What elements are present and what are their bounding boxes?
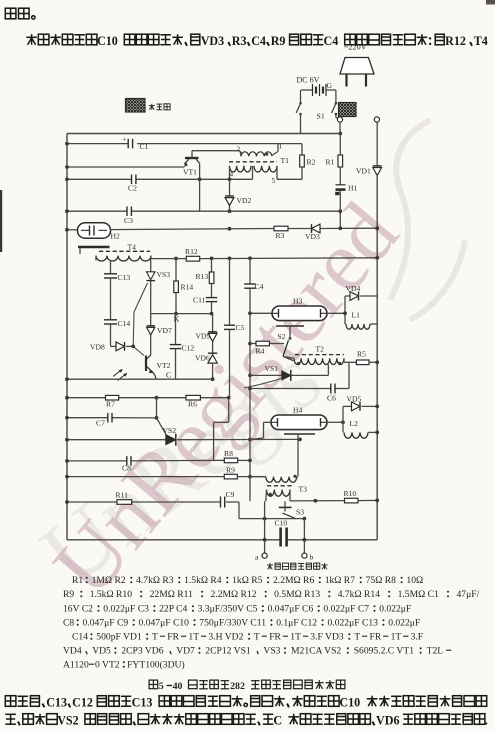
H4 trigger plate — [284, 433, 315, 435]
wire C5/R6 to R8 jog — [228, 398, 230, 423]
capacitor C14 — [104, 319, 117, 321]
wire bottom bus — [67, 539, 281, 541]
resistor R7 — [106, 395, 119, 400]
thyristor VS3 — [146, 259, 170, 314]
wire x250 bus low — [249, 375, 251, 476]
wire C3 VD2 line — [67, 210, 127, 212]
svg-text:75Ω R8: 75Ω R8 — [366, 575, 397, 586]
transformer T3 — [250, 475, 307, 502]
VS1 gate — [244, 379, 281, 388]
svg-text:0.1μF C12: 0.1μF C12 — [276, 618, 317, 629]
svg-text:R1: R1 — [72, 575, 83, 586]
capacitor C1 — [127, 139, 129, 149]
thyristor VS2 — [157, 418, 168, 438]
wire VT1 collector drop — [199, 180, 201, 211]
svg-text:0.022μF C3: 0.022μF C3 — [103, 604, 149, 615]
capacitor C7 — [107, 413, 109, 423]
resistor R10 — [345, 498, 359, 503]
svg-text:1kΩ R7: 1kΩ R7 — [325, 575, 356, 586]
neon H1 — [336, 184, 346, 186]
svg-text:C8: C8 — [63, 618, 74, 629]
wire C5 branch — [229, 258, 231, 325]
svg-text:FYT100(3DU): FYT100(3DU) — [127, 660, 185, 671]
socket terminal 2 — [374, 117, 379, 122]
svg-text:750μF/330V C11: 750μF/330V C11 — [199, 618, 266, 629]
resistor R2 — [301, 144, 303, 155]
svg-text:1.5MΩ C1: 1.5MΩ C1 — [398, 589, 439, 600]
svg-text:R3: R3 — [232, 34, 247, 48]
svg-text:VS2: VS2 — [57, 714, 79, 728]
edge mark top right — [486, 0, 495, 5]
svg-text:1kΩ R5: 1kΩ R5 — [232, 575, 263, 586]
capacitor C3 — [126, 206, 128, 216]
resistor R9 — [224, 474, 237, 479]
top paragraph — [5, 8, 16, 19]
svg-text:3.3μF/350V C5: 3.3μF/350V C5 — [198, 604, 258, 615]
wire left bus — [66, 134, 68, 540]
svg-text:M21CA VS2: M21CA VS2 — [291, 646, 341, 657]
resistor R5 — [344, 361, 356, 363]
thyristor VS1 — [250, 374, 282, 376]
wire C6 line — [250, 388, 331, 390]
svg-text:282: 282 — [230, 681, 245, 692]
capacitor C10 — [279, 528, 282, 547]
svg-text:4.7kΩ R3: 4.7kΩ R3 — [136, 575, 174, 586]
caption — [149, 680, 158, 689]
wire C8 line — [67, 460, 127, 462]
bottom paragraph — [5, 696, 16, 707]
capacitor C6 — [330, 384, 332, 394]
svg-text:VD6: VD6 — [376, 714, 400, 728]
wire right bus — [376, 176, 378, 540]
svg-text:T: T — [254, 632, 260, 643]
svg-text:3.F: 3.F — [411, 632, 424, 643]
svg-text:0 VT2: 0 VT2 — [95, 660, 120, 671]
svg-text:22MΩ R11: 22MΩ R11 — [150, 589, 193, 600]
insulation pad (board label) — [126, 99, 146, 113]
svg-text:2CP3 VD6: 2CP3 VD6 — [121, 646, 163, 657]
capacitor C9 — [220, 497, 222, 508]
svg-text:0.047μF C9: 0.047μF C9 — [83, 618, 129, 629]
resistor R12 — [186, 256, 199, 261]
svg-text:16V C2: 16V C2 — [63, 604, 93, 615]
svg-text:VD7: VD7 — [176, 646, 195, 657]
svg-text:C13: C13 — [46, 696, 67, 710]
resistor R6 — [186, 395, 200, 400]
svg-text:C14: C14 — [72, 632, 88, 643]
svg-text:C4: C4 — [324, 34, 339, 48]
wire T3-R10 line — [290, 500, 345, 502]
wire R12 line — [151, 258, 186, 260]
svg-text:T2L: T2L — [427, 646, 444, 657]
diode VD4 loop — [344, 296, 346, 324]
wire terminal b — [303, 519, 305, 553]
svg-text:C10: C10 — [339, 696, 360, 710]
resistor R1 — [339, 134, 341, 156]
wire top bus — [67, 133, 340, 135]
transistor VT1 — [183, 151, 241, 181]
svg-text:FR: FR — [269, 632, 281, 643]
svg-text:.: . — [485, 714, 488, 728]
wire R7 R6 line — [67, 397, 106, 399]
svg-text:40: 40 — [173, 681, 183, 692]
svg-text:0.022μF: 0.022μF — [379, 604, 411, 615]
wire C7 line — [67, 417, 108, 419]
svg-text:1T: 1T — [188, 632, 199, 643]
wire C node line — [67, 378, 213, 380]
switch S3 — [284, 501, 286, 506]
svg-text:C13: C13 — [132, 696, 153, 710]
svg-text:R9: R9 — [271, 34, 286, 48]
svg-text:R9: R9 — [63, 589, 74, 600]
svg-text:R12: R12 — [445, 34, 466, 48]
svg-text:3.H VD2: 3.H VD2 — [208, 632, 243, 643]
svg-text:1T: 1T — [391, 632, 402, 643]
svg-text:0.022μF C7: 0.022μF C7 — [323, 604, 369, 615]
svg-text:T: T — [354, 632, 360, 643]
wire x250 T3 link — [249, 477, 251, 502]
diode VD3 — [312, 224, 321, 233]
wire C2 line — [67, 178, 132, 180]
svg-text:FR: FR — [167, 632, 179, 643]
wire R9 line — [67, 476, 224, 478]
svg-text:A1120: A1120 — [63, 660, 89, 671]
resistor R11 — [117, 500, 132, 505]
watermark seal circles — [390, 120, 465, 320]
plug ~220V — [340, 43, 374, 87]
flash tube H3 — [250, 297, 345, 321]
svg-text:0.022μF C13: 0.022μF C13 — [328, 618, 379, 629]
wire VT1 emitter line — [67, 166, 184, 168]
flash tube H4 — [250, 406, 345, 440]
wire T1-5 to R2 — [277, 178, 302, 180]
resistor R13 — [211, 259, 213, 272]
diode VD7 — [150, 314, 152, 326]
diode VD6 — [208, 355, 217, 364]
svg-text:T4: T4 — [474, 34, 488, 48]
svg-text:5: 5 — [159, 681, 164, 692]
capacitor C12 — [175, 314, 177, 345]
neon H2 — [65, 223, 120, 241]
wire terminal a — [264, 501, 266, 553]
svg-text:FR: FR — [370, 632, 382, 643]
svg-text:C: C — [273, 714, 282, 728]
phototransistor VT2 — [113, 355, 171, 381]
wire H2-R3-VD3 line — [111, 229, 275, 230]
diode VD2 — [229, 179, 231, 196]
label sync note — [269, 563, 271, 569]
capacitor C8 — [126, 456, 128, 466]
diode VD1 — [373, 168, 382, 176]
svg-text:T: T — [152, 632, 158, 643]
svg-text:VD4: VD4 — [63, 646, 82, 657]
capacitor C2 — [131, 175, 133, 185]
edge mark — [0, 190, 2, 252]
svg-text:C4: C4 — [251, 34, 266, 48]
svg-text:C10: C10 — [97, 34, 118, 48]
insulation pad (top) — [339, 103, 357, 117]
svg-text:47μF/: 47μF/ — [457, 589, 480, 600]
wire S3 line — [239, 518, 304, 520]
capacitor C13 — [104, 273, 117, 275]
svg-text:22P C4: 22P C4 — [159, 604, 187, 615]
svg-text:1T: 1T — [290, 632, 301, 643]
socket terminal 1 — [337, 117, 342, 122]
svg-text:1MΩ R2: 1MΩ R2 — [92, 575, 126, 586]
inductor L2 — [344, 432, 368, 438]
switch S2 — [289, 337, 292, 340]
svg-text:0.022μF: 0.022μF — [388, 618, 420, 629]
resistor R3 — [274, 226, 288, 231]
svg-text:C12: C12 — [72, 696, 93, 710]
svg-text:500pF VD1: 500pF VD1 — [96, 632, 142, 643]
transformer T4 — [78, 243, 151, 274]
svg-text:VS3: VS3 — [263, 646, 280, 657]
svg-text:2CP12 VS1: 2CP12 VS1 — [205, 646, 251, 657]
svg-text:2.2MΩ R12: 2.2MΩ R12 — [211, 589, 257, 600]
diode VD9 — [212, 314, 214, 334]
wire VS3 gate diagonal — [133, 283, 147, 356]
svg-text:0.5MΩ R13: 0.5MΩ R13 — [274, 589, 320, 600]
diode VD5 loop — [342, 406, 344, 432]
svg-text:4.7kΩ R14: 4.7kΩ R14 — [338, 589, 381, 600]
inductor L1 — [345, 323, 346, 325]
transformer T2 — [285, 345, 345, 376]
wire C1 line — [67, 143, 128, 145]
resistor R14 — [175, 259, 177, 281]
wire x250 bus mid — [249, 313, 251, 375]
svg-text:3.F VD3: 3.F VD3 — [310, 632, 344, 643]
H3 trigger plate — [276, 325, 304, 327]
resistor R8 — [214, 459, 225, 461]
wire R11 C9 line — [67, 501, 117, 503]
resistor R4 — [250, 343, 256, 345]
wire VS2 line — [67, 439, 166, 441]
label 绝缘板 — [151, 104, 153, 110]
capacitor C11 — [206, 297, 218, 299]
svg-text:1.5kΩ R10: 1.5kΩ R10 — [90, 589, 133, 600]
wire K line — [151, 313, 213, 315]
battery G DC6V — [297, 76, 336, 97]
transformer T1 — [229, 143, 289, 186]
svg-text:VD5: VD5 — [92, 646, 111, 657]
svg-text:VD3: VD3 — [201, 34, 225, 48]
svg-text:0.047μF C6: 0.047μF C6 — [268, 604, 314, 615]
wire R7-C7 link — [156, 398, 158, 418]
svg-text:0.047μF C10: 0.047μF C10 — [139, 618, 190, 629]
svg-text:S6095.2.C VT1: S6095.2.C VT1 — [354, 646, 415, 657]
diode VD8 — [111, 345, 117, 347]
svg-text:1.5kΩ R4: 1.5kΩ R4 — [184, 575, 222, 586]
svg-text:10Ω: 10Ω — [406, 575, 423, 586]
switch S1 — [296, 90, 339, 134]
capacitor C4 — [249, 258, 251, 284]
svg-text:2.2MΩ R6: 2.2MΩ R6 — [273, 575, 314, 586]
